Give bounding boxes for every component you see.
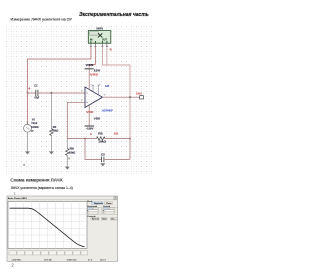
op-amp pin number marks [81,84,105,100]
svg-text:101: 101 [136,92,142,95]
schematic dotted grid background [6,26,153,175]
input rail wire [28,92,86,94]
ground arrow under C2 [100,163,105,166]
capacitor C2 [102,157,104,163]
bode plotter mini screen [90,32,99,35]
svg-text:Схема измерения ЛАЧХ: Схема измерения ЛАЧХ [10,177,63,182]
ground arrow under V2 [25,151,30,154]
wire V+ pin to VSS [88,69,90,89]
resistor R2 zigzag [97,137,105,140]
svg-text:Phase: Phase [106,203,111,205]
ground arrow under R5 [65,167,70,170]
svg-text:Экспериментальная часть: Экспериментальная часть [79,12,149,18]
capacitor C1 [36,90,38,96]
resistor R5 zigzag [66,149,69,156]
svg-text:R5: R5 [70,147,75,151]
junction rail left loop [84,138,86,140]
junction rail right [129,138,131,140]
bode plotter XBP1 body [88,31,111,44]
bode plotter sweep X icon [98,33,102,37]
svg-text:OUT: OUT [102,38,108,41]
output connector square [140,96,144,99]
wire OUT- stub [106,46,108,65]
svg-text:1.: 1. [13,192,16,196]
svg-text:ЛАЧХ усилителя (варианты схемы: ЛАЧХ усилителя (варианты схемы 1–4) [11,186,73,190]
bode plotter pin pads [91,41,107,43]
junction input node [27,92,29,94]
horizontal groupbox [87,207,102,214]
svg-text:Save: Save [102,219,106,221]
op-amp balance pin stubs [92,85,100,95]
svg-text:10kΩ: 10kΩ [98,140,107,143]
feedback rail wire [67,138,130,140]
svg-text:1: 1 [90,132,92,135]
bode magnitude curve [10,208,85,247]
op-amp input polarity marks [86,93,88,102]
inverting input wire [67,102,85,138]
output wire [103,96,140,98]
VDD power bar [85,125,94,127]
close button [114,197,117,200]
svg-text:Reverse: Reverse [92,219,99,221]
bottom buttons row [9,251,88,255]
C2 loop wires [85,139,130,160]
svg-text:-87.5 dB: -87.5 dB [44,259,52,261]
op-amp U5 triangle [85,87,103,108]
feedback vertical wire [129,97,131,138]
wire IN+ to input node [28,46,91,124]
plot area [8,202,87,249]
window body [7,196,118,261]
svg-text:8: 8 [110,48,112,51]
wire V2 to ground [27,132,29,151]
page background [0,0,210,272]
svg-text:4: 4 [28,87,30,90]
svg-text:1.292 GHz: 1.292 GHz [12,259,22,261]
sine source V2 [24,124,32,132]
svg-text:R2: R2 [98,132,103,135]
bode plotter terminal stubs [90,43,108,46]
svg-text:10kΩ: 10kΩ [52,130,58,133]
svg-text:Измерение ЛАЧХ усилителя на ОУ: Измерение ЛАЧХ усилителя на ОУ [11,17,73,21]
svg-text:-15V: -15V [86,127,95,130]
title separator [7,199,118,201]
svg-text:AD744KP: AD744KP [102,110,113,113]
svg-text:VSS: VSS [86,64,95,67]
svg-text:IN: IN [90,38,93,41]
svg-text:VDD: VDD [86,110,93,113]
junction R1 node [51,92,53,94]
svg-text:F: F [87,210,88,212]
junction output node [129,96,131,98]
svg-text:F: F [103,210,104,212]
svg-text:0.000 mHz: 0.000 mHz [67,259,77,261]
vertical groupbox [103,207,118,214]
wire V- pin to VDD [88,105,90,126]
svg-text:VDD: VDD [94,117,100,121]
wire OUT+ down [102,46,130,97]
VSS power bar [85,68,94,70]
svg-text:1000Hz: 1000Hz [31,127,39,129]
svg-text:U5: U5 [105,84,110,88]
svg-text:15V: 15V [94,69,102,72]
svg-text:VSS: VSS [90,73,99,76]
wire IN- to VSS [89,46,95,67]
resistor R5 wires [66,139,68,167]
resistor R1 zigzag [50,129,53,136]
resistor R1 wires [50,93,52,151]
ground arrow under R1 [49,151,54,154]
svg-text:1Vpk: 1Vpk [31,122,38,125]
